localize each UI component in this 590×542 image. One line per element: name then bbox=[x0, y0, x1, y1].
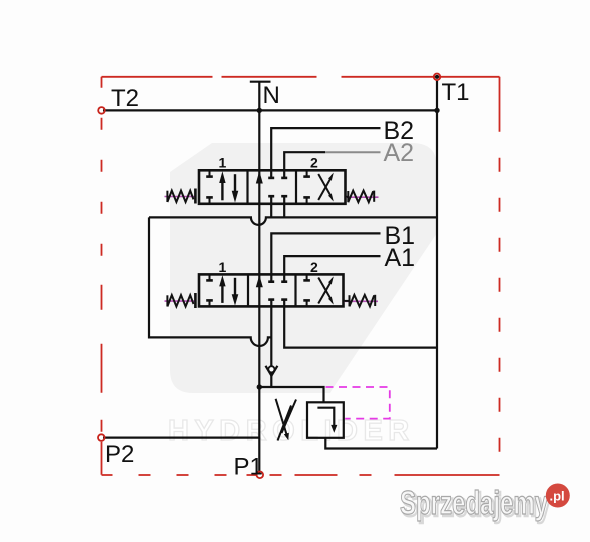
wire T2 rail bbox=[103, 109, 437, 111]
relief valve RV1 body bbox=[307, 402, 344, 438]
valve U2 body bbox=[199, 274, 344, 306]
junction node T1 rail bbox=[434, 108, 439, 113]
wire P to relief valve bbox=[259, 387, 323, 402]
port ring P2 bbox=[98, 434, 105, 441]
wire P center line (N to P1) bbox=[258, 82, 260, 475]
svg-text:Sprzedajemy: Sprzedajemy bbox=[400, 484, 548, 521]
wire valve1 bottom stub left bbox=[270, 196, 272, 217]
svg-text:P1: P1 bbox=[234, 454, 263, 481]
valve U2 (lower DCV) bbox=[165, 259, 379, 308]
svg-text:N: N bbox=[263, 82, 280, 109]
svg-text:.pl: .pl bbox=[550, 489, 565, 504]
svg-text:HYDROLIDER: HYDROLIDER bbox=[168, 415, 415, 447]
check valve seat bbox=[266, 366, 278, 376]
watermark logo square bbox=[170, 143, 437, 393]
sprzedajemy.pl logo bbox=[400, 484, 570, 524]
svg-text:2: 2 bbox=[310, 259, 318, 275]
relief valve flow path bbox=[317, 408, 334, 427]
pilot line (magenta dashed) bbox=[326, 387, 390, 419]
valve U2 section1 symbols bbox=[206, 274, 235, 306]
port ring T2 bbox=[98, 107, 105, 114]
wire T1 right rail bbox=[436, 80, 438, 449]
svg-text:1: 1 bbox=[219, 155, 227, 171]
svg-text:2: 2 bbox=[310, 155, 318, 171]
check valve ball bbox=[268, 366, 274, 372]
valve U1 section3 symbols bbox=[303, 170, 331, 204]
port ring T1 bbox=[434, 74, 441, 81]
valve U2 right spring bbox=[344, 300, 378, 302]
port N plug bar bbox=[250, 81, 271, 83]
valve U2 left spring bbox=[165, 300, 197, 302]
port ring P1 bbox=[257, 472, 264, 479]
junction node T2-N bbox=[257, 108, 262, 113]
wire valve1 bottom stub right bbox=[283, 196, 285, 217]
svg-text:T1: T1 bbox=[442, 79, 470, 106]
svg-text:A2: A2 bbox=[384, 139, 415, 167]
junction node P-relief bbox=[257, 384, 262, 389]
valve U1 left spring bbox=[165, 196, 197, 198]
valve U1 section2 symbols bbox=[256, 171, 263, 184]
wire B2 bbox=[271, 128, 380, 178]
wire P2 line bbox=[103, 437, 259, 439]
wire valve2 to relief junction bbox=[270, 300, 272, 387]
wire B1 bbox=[271, 233, 380, 281]
red dashed enclosure border bbox=[102, 77, 500, 475]
wire A1 bbox=[284, 256, 380, 282]
relief valve spring and adjust arrow bbox=[276, 399, 296, 441]
svg-text:P2: P2 bbox=[105, 441, 134, 468]
valve U1 body bbox=[199, 170, 346, 204]
svg-text:T2: T2 bbox=[111, 85, 139, 112]
svg-text:A1: A1 bbox=[385, 244, 416, 272]
wire left bypass box bbox=[149, 217, 271, 346]
valve U1 section1 symbols bbox=[206, 170, 235, 204]
wire valve2 tank to right rail bbox=[284, 300, 437, 347]
wire tank gallery under valve 1 with hop bbox=[149, 217, 437, 225]
wire A2 (fades gray) bbox=[284, 152, 325, 178]
valve U1 right spring bbox=[346, 196, 379, 198]
valve U2 section2 symbols bbox=[256, 275, 263, 287]
junction node T1 top bbox=[435, 75, 439, 79]
valve U1 (upper DCV) bbox=[165, 155, 379, 204]
svg-text:1: 1 bbox=[219, 259, 227, 275]
wire relief outlet to right rail bbox=[325, 438, 437, 449]
valve U2 section3 symbols bbox=[303, 274, 331, 306]
